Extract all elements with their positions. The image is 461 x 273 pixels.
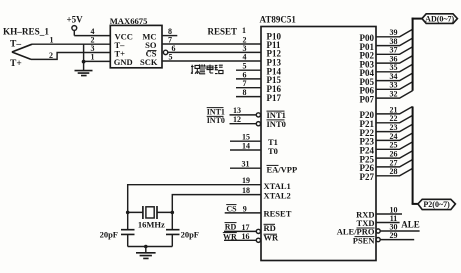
stub EA/VPP pin 31 [230, 167, 261, 169]
node junction crystal left [126, 211, 130, 215]
svg-text:5: 5 [169, 53, 173, 62]
svg-text:RESET: RESET [264, 209, 292, 219]
svg-text:21: 21 [390, 105, 398, 114]
wire P07 pin 32 [376, 91, 413, 99]
wire XTAL1 pin 19 to crystal [128, 185, 261, 213]
svg-text:15: 15 [242, 133, 250, 142]
AT89C51 internal labels right column P0 [360, 33, 375, 104]
svg-text:P17: P17 [267, 93, 282, 103]
svg-text:P07: P07 [360, 94, 375, 104]
svg-text:GND: GND [114, 57, 133, 67]
inverter bubble pin 16 [256, 238, 260, 242]
stub P17 pin 8 [236, 96, 261, 98]
inverter bubble pin 12 [256, 122, 260, 126]
wire XTAL2 pin 18 to crystal [172, 195, 261, 213]
svg-text:T+: T+ [10, 59, 22, 69]
svg-text:4: 4 [243, 53, 247, 62]
node junction T-/GND [82, 60, 86, 64]
svg-text:3: 3 [243, 44, 247, 53]
svg-text:34: 34 [390, 72, 398, 81]
svg-text:26: 26 [390, 150, 398, 159]
crystal Y1 16MHz [128, 206, 173, 229]
inverter bubble pin 17 [256, 229, 260, 233]
stub MC pin 8 of MAX6675 [162, 35, 177, 37]
bus AD0-7 vertical [412, 18, 414, 91]
svg-text:AT89C51: AT89C51 [260, 15, 297, 25]
AT89C51 internal labels left column [267, 31, 282, 103]
svg-text:8: 8 [243, 88, 247, 97]
svg-text:6: 6 [172, 44, 176, 53]
svg-text:13: 13 [233, 106, 241, 115]
svg-text:18: 18 [242, 186, 250, 195]
svg-text:3: 3 [91, 44, 95, 53]
wire P02 pin 37 [376, 47, 413, 55]
wire INT1 to pin 13 [230, 114, 257, 116]
svg-text:RESET: RESET [208, 26, 238, 36]
svg-text:22: 22 [390, 114, 398, 123]
net label WR (active low) [223, 232, 237, 241]
wire P23 pin 24 [376, 133, 413, 140]
svg-text:12: 12 [233, 115, 241, 124]
wire P20 pin 21 [376, 107, 413, 114]
svg-text:KH–RES_1: KH–RES_1 [3, 26, 49, 36]
svg-text:T0: T0 [268, 146, 278, 156]
svg-text:INT1: INT1 [207, 107, 225, 116]
stub PSEN pin 29 [380, 239, 414, 241]
stub P14 pin 5 [236, 69, 261, 71]
svg-text:27: 27 [390, 158, 398, 167]
net label INT0 (active low) [207, 116, 225, 125]
IC U2 AT89C51 [260, 15, 377, 261]
wire INT0 to pin 12 [230, 123, 257, 125]
svg-text:INT0: INT0 [207, 116, 225, 125]
wire SO pin 7 MAX6675 to P11 pin 2 AT89C51 [162, 43, 261, 45]
wire P27 pin 28 [376, 168, 413, 175]
ground (thermocouple / MAX6675) [75, 71, 93, 76]
svg-text:XTAL2: XTAL2 [264, 191, 291, 201]
svg-text:28: 28 [390, 167, 398, 176]
thermocouple KH-RES_1 [3, 26, 49, 68]
wire P25 pin 26 [376, 151, 413, 158]
svg-text:16MHz: 16MHz [138, 219, 165, 229]
svg-text:19: 19 [242, 176, 250, 185]
wire P03 pin 36 [376, 56, 413, 64]
svg-text:32: 32 [390, 90, 398, 99]
stub P15 pin 6 [236, 78, 261, 80]
svg-text:20pF: 20pF [100, 229, 118, 239]
wire T- to GND junction (vertical) [83, 44, 85, 70]
wire P04 pin 35 [376, 64, 413, 72]
wire P06 pin 33 [376, 82, 413, 90]
wire WR to pin 16 [224, 239, 256, 241]
wire P00 pin 39 [376, 29, 413, 37]
svg-text:2: 2 [49, 51, 53, 60]
svg-text:6: 6 [243, 70, 247, 79]
stub T1 pin 15 [230, 140, 261, 142]
svg-text:20pF: 20pF [181, 229, 199, 239]
wire P05 pin 34 [376, 73, 413, 81]
svg-text:35: 35 [390, 63, 398, 72]
capacitor C2 20pF [166, 212, 199, 246]
inverter bubble on CS pin 6 of MAX6675 [163, 50, 167, 54]
svg-text:MAX6675: MAX6675 [110, 16, 148, 26]
svg-text:T–: T– [10, 40, 21, 50]
svg-text:1: 1 [50, 36, 54, 45]
svg-text:14: 14 [242, 141, 250, 150]
svg-text:39: 39 [390, 28, 398, 37]
svg-text:ALE: ALE [401, 219, 420, 229]
net tag P2(0~7) [418, 199, 456, 209]
svg-text:1: 1 [242, 26, 246, 35]
svg-text:XTAL1: XTAL1 [264, 181, 291, 191]
svg-text:+5V: +5V [67, 14, 84, 24]
wire P26 pin 27 [376, 160, 413, 167]
wire P01 pin 38 [376, 38, 413, 46]
wire P21 pin 22 [376, 115, 413, 122]
svg-text:24: 24 [390, 132, 398, 141]
svg-text:37: 37 [390, 46, 398, 55]
net label INT1 (active low) [207, 107, 225, 116]
node junction ground [144, 245, 148, 249]
bus P2 horizontal to tag [412, 203, 418, 205]
svg-text:RD: RD [225, 223, 237, 232]
ground (crystal) [136, 247, 156, 259]
bus P2 vertical [412, 107, 414, 204]
stub T0 pin 14 [230, 149, 261, 151]
svg-text:7: 7 [243, 79, 247, 88]
wire P22 pin 23 [376, 124, 413, 131]
inverter bubble pin 13 [256, 113, 260, 117]
wire CS to RESET pin 9 [225, 212, 261, 214]
svg-text:23: 23 [390, 123, 398, 132]
wire thermocouple lead 1 (T- to MAX6675 T-) [32, 43, 110, 45]
svg-text:AD(0~7): AD(0~7) [425, 15, 454, 24]
svg-text:P2(0~7): P2(0~7) [423, 200, 450, 209]
svg-text:P27: P27 [360, 172, 375, 182]
svg-text:16: 16 [242, 232, 250, 241]
inverter bubble ALE/PRO pin 30 [376, 229, 380, 233]
net label CS (active low) [226, 205, 237, 214]
wire ALE pin 30 [380, 230, 419, 232]
bus AD0-7 horizontal to tag [412, 18, 422, 20]
svg-text:36: 36 [390, 55, 398, 64]
node junction crystal right [171, 211, 175, 215]
inverter bubble PSEN pin 29 [376, 238, 380, 242]
wire CS pin 6 MAX6675 to P12 pin 3 AT89C51 [168, 51, 261, 53]
svg-text:1: 1 [91, 53, 95, 62]
svg-text:33: 33 [390, 81, 398, 90]
net tag AD(0~7) [422, 14, 457, 24]
wire crystal caps bottom [128, 246, 173, 248]
stub TXD pin 11 [376, 222, 400, 224]
capacitor C1 20pF [100, 212, 135, 246]
power +5V [67, 14, 84, 35]
svg-text:38: 38 [390, 37, 398, 46]
label alarm circuit (CJK) [191, 64, 223, 74]
AT89C51 internal labels right column P2 [360, 110, 375, 182]
IC U1 MAX6675 [110, 16, 162, 68]
wire RD to pin 17 [224, 230, 256, 232]
svg-text:25: 25 [390, 141, 398, 150]
svg-text:9: 9 [243, 204, 247, 213]
stub P16 pin 7 [236, 87, 261, 89]
stub RXD pin 10 [376, 213, 402, 215]
wire SCK pin 5 MAX6675 to P13 pin 4 AT89C51 [162, 60, 261, 62]
net label RD (active low) [225, 223, 237, 232]
svg-text:SCK: SCK [140, 57, 158, 67]
svg-text:17: 17 [242, 223, 250, 232]
svg-text:29: 29 [390, 231, 398, 240]
svg-text:31: 31 [242, 160, 250, 169]
wire P24 pin 25 [376, 142, 413, 149]
wire +5V to MAX6675 VCC pin 4 [74, 35, 110, 37]
wire GND pin 1 of MAX6675 [84, 60, 111, 62]
wire thermocouple lead 2 (T+ to MAX6675 T+) [31, 53, 110, 60]
